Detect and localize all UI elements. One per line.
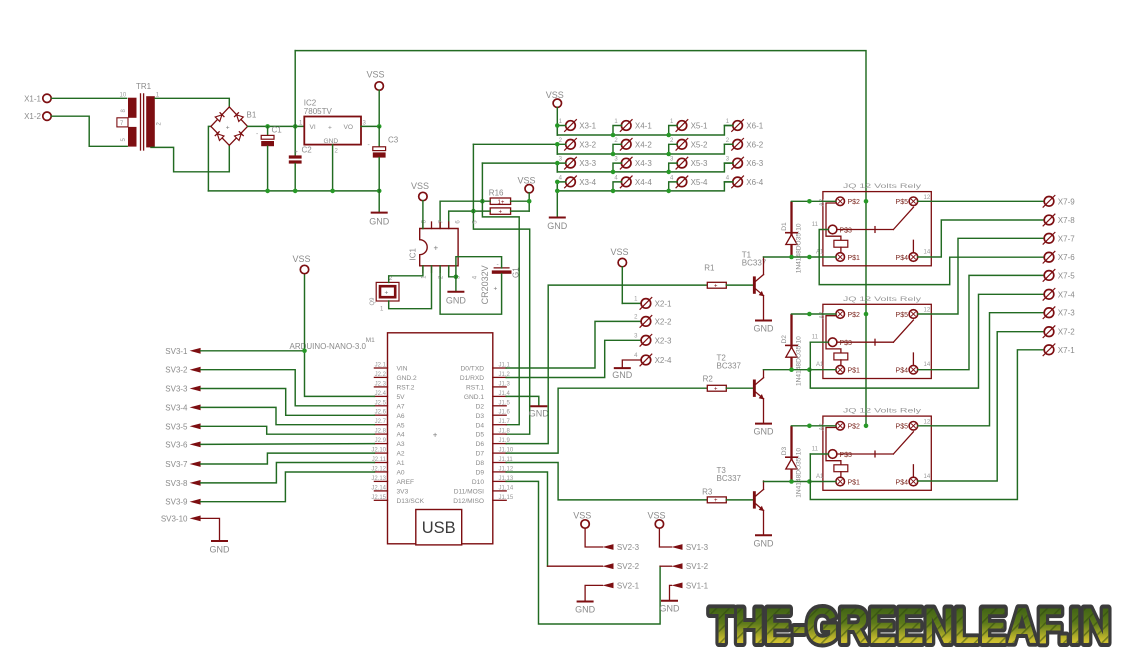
svg-text:GND: GND: [446, 296, 467, 306]
node diode bottom relay1: [789, 255, 794, 260]
svg-text:GND: GND: [210, 545, 231, 555]
terminal SV1-3: [672, 543, 709, 552]
ground GND grid: [547, 218, 568, 232]
transistor T3 BC337: [717, 466, 764, 535]
svg-text:P$3: P$3: [840, 227, 853, 234]
svg-text:VO: VO: [344, 124, 354, 131]
svg-text:SV2-1: SV2-1: [617, 581, 640, 590]
svg-text:D1: D1: [781, 222, 788, 231]
terminal SV3-7: [165, 460, 200, 469]
wire J1.11 D8 to R3: [506, 463, 707, 500]
wire stub X5-4: [669, 182, 678, 191]
svg-text:J1.7: J1.7: [499, 419, 511, 425]
connector X4-1: [614, 119, 652, 132]
ground GND X2-4: [612, 368, 633, 380]
node IC1 gnd: [454, 275, 459, 280]
node rail C1: [265, 189, 270, 194]
svg-text:GND.2: GND.2: [397, 375, 417, 382]
wire relay2 NC 12 to X7-7: [918, 238, 1044, 314]
wire J1.2 D1/RXD to X2-3: [506, 340, 641, 377]
svg-text:P$4: P$4: [896, 479, 909, 486]
svg-text:P$2: P$2: [848, 424, 861, 431]
svg-text:-: -: [497, 261, 499, 268]
svg-text:J1.8: J1.8: [499, 429, 511, 435]
svg-text:A1: A1: [816, 362, 824, 368]
wire relay1 NC 12 to X7-9: [918, 200, 1044, 202]
node A1 pin relay3: [807, 479, 812, 484]
ground GND T1: [754, 321, 775, 334]
node rail IC2: [330, 189, 335, 194]
wire top rail left drop: [294, 51, 296, 127]
svg-text:A5: A5: [397, 422, 405, 429]
svg-text:7805TV: 7805TV: [304, 107, 333, 116]
svg-text:D5: D5: [476, 432, 485, 439]
power VSS IC1: [411, 181, 429, 229]
svg-text:P$3: P$3: [840, 340, 853, 347]
terminal SV3-4: [165, 403, 200, 412]
svg-text:RST.1: RST.1: [466, 385, 484, 392]
wire stub X6-3: [724, 162, 733, 164]
svg-text:-: -: [256, 131, 258, 138]
wire stub X4-1: [613, 126, 622, 136]
svg-text:X7-3: X7-3: [1058, 309, 1075, 318]
transformer TR1: [117, 82, 163, 150]
ground GND SV1-1: [660, 601, 681, 614]
node junction C1: [265, 124, 270, 129]
svg-text:+: +: [714, 386, 718, 392]
svg-text:11: 11: [812, 447, 819, 453]
svg-text:+: +: [434, 244, 439, 253]
svg-text:SV3-9: SV3-9: [165, 498, 188, 507]
wire bus row3: [557, 163, 733, 172]
capacitor C1: [256, 125, 282, 191]
resistor network R16: [489, 189, 511, 216]
svg-text:+: +: [226, 124, 230, 131]
node bus1 X4: [611, 133, 616, 138]
wire stub X6-4: [724, 181, 733, 183]
relay K1 JQ-12V: [812, 184, 932, 266]
terminal SV3-1: [165, 347, 200, 356]
node grid left: [555, 123, 560, 128]
node VSS/VO/C3: [377, 124, 382, 129]
wire SV3-1: [201, 350, 305, 352]
svg-text:X7-2: X7-2: [1058, 328, 1075, 337]
svg-text:1N4148DO35-10: 1N4148DO35-10: [795, 336, 802, 386]
wire SV3-10 to GND: [201, 518, 220, 541]
svg-text:X7-4: X7-4: [1058, 290, 1075, 299]
svg-text:SV3-7: SV3-7: [165, 460, 188, 469]
svg-text:+: +: [714, 498, 718, 504]
connector X2-3: [634, 333, 672, 346]
svg-text:M1: M1: [366, 337, 375, 344]
wire X2-4 to GND: [622, 360, 641, 368]
node rail C3: [377, 189, 382, 194]
wire IC2 VO to VSS node: [361, 125, 379, 127]
wire VSS to X2-1: [622, 302, 641, 304]
svg-text:VSS: VSS: [648, 511, 666, 521]
ground GND SV2-1: [575, 602, 596, 615]
wire stub X3-2: [557, 144, 566, 154]
svg-text:D3: D3: [781, 447, 788, 456]
svg-text:X7-7: X7-7: [1058, 234, 1075, 243]
node A2 pin relay2: [807, 312, 812, 317]
svg-text:J2.4: J2.4: [375, 391, 387, 397]
node bus4 X4: [611, 189, 616, 194]
svg-text:D3: D3: [476, 413, 485, 420]
svg-text:GND: GND: [324, 138, 339, 145]
svg-text:AREF: AREF: [397, 479, 415, 486]
ground GND psu: [369, 191, 390, 227]
svg-text:X4-1: X4-1: [635, 122, 652, 131]
wire SV3-3 to A6: [201, 389, 375, 416]
svg-text:X2-1: X2-1: [655, 299, 672, 308]
terminal SV2-1: [603, 581, 640, 590]
terminal SV3-8: [165, 479, 200, 488]
svg-text:Q9: Q9: [370, 297, 376, 306]
connector X2-2: [634, 315, 672, 328]
diode D1 1N4148DO35-10: [781, 201, 802, 273]
svg-text:R16: R16: [489, 189, 504, 198]
svg-text:J2.9: J2.9: [375, 438, 387, 444]
node R16 VSS: [527, 199, 532, 204]
wire J1.1 D0/TXD to X2-2: [506, 321, 641, 368]
wire battery plus to IC1 pin3: [440, 266, 502, 314]
svg-text:D7: D7: [476, 451, 485, 458]
svg-text:J1.5: J1.5: [499, 400, 511, 406]
terminal SV3-6: [165, 440, 200, 449]
svg-text:SV1-3: SV1-3: [686, 543, 709, 552]
svg-text:12: 12: [924, 308, 931, 314]
svg-text:X5-1: X5-1: [691, 122, 708, 131]
connector X5-1: [670, 119, 708, 132]
svg-text:X3-1: X3-1: [579, 122, 596, 131]
wire SV2-1 to GND: [585, 585, 602, 601]
connector X7-3: [1043, 306, 1076, 319]
wire J1.13 D10 to SV1-2: [506, 481, 660, 624]
svg-text:SV3-8: SV3-8: [165, 479, 188, 488]
svg-text:X6-2: X6-2: [746, 140, 763, 149]
wire to SV1-2: [660, 565, 671, 567]
svg-text:SV3-4: SV3-4: [165, 403, 188, 412]
connector X7-4: [1043, 288, 1076, 301]
svg-text:D9: D9: [476, 470, 485, 477]
node rail C2: [293, 189, 298, 194]
svg-text:A2: A2: [397, 451, 405, 458]
connector X3-4: [559, 175, 597, 188]
terminal SV3-5: [165, 422, 200, 431]
wire J1.12 D9 to SV2-2: [506, 472, 547, 566]
svg-text:+: +: [714, 283, 718, 289]
svg-text:A2: A2: [819, 198, 825, 206]
capacitor C3: [368, 126, 399, 190]
svg-text:BC337: BC337: [717, 474, 742, 483]
wire stub X4-3: [613, 163, 622, 172]
wire to SV2-2: [548, 565, 603, 567]
node diode bottom relay3: [789, 479, 794, 484]
svg-text:A0: A0: [397, 470, 405, 477]
power VSS grid top: [546, 90, 564, 135]
svg-text:THE-GREENLEAF.IN: THE-GREENLEAF.IN: [709, 598, 1111, 651]
wire VSS to SV2-3: [585, 528, 602, 547]
svg-text:J2.14: J2.14: [371, 485, 386, 491]
wire SV3-7 to A2: [201, 453, 375, 464]
connector X4-4: [614, 175, 652, 188]
wire battery minus loop: [456, 257, 502, 277]
ground GND J1.4: [529, 406, 550, 418]
wire bus row2: [557, 144, 733, 154]
wire collector row relay1: [764, 256, 836, 258]
power VSS SV1: [648, 511, 666, 529]
svg-text:1N4148DO35-10: 1N4148DO35-10: [795, 223, 802, 273]
svg-text:SV3-10: SV3-10: [161, 514, 188, 523]
svg-text:VSS: VSS: [411, 181, 429, 191]
node A1 pin relay2: [807, 367, 812, 372]
wire crystal top to IC1 pin1: [389, 266, 423, 283]
svg-text:VSS: VSS: [546, 90, 564, 100]
power VSS top left: [367, 70, 385, 127]
node SV3-1 VSS: [302, 349, 307, 354]
svg-text:X4-3: X4-3: [635, 159, 652, 168]
wire X1-1 to TR1 primary top: [52, 97, 127, 99]
wire IC1 pin4 to GND node: [449, 266, 456, 277]
svg-text:A7: A7: [397, 403, 405, 410]
wire coil A2 row relay3: [792, 425, 836, 427]
node A2 pin relay3: [807, 424, 812, 429]
wire X1-2 to TR1 primary bottom: [52, 116, 128, 146]
svg-text:IC2: IC2: [304, 98, 317, 107]
node bus1 X5: [666, 133, 671, 138]
capacitor C2: [289, 126, 312, 190]
svg-text:+: +: [494, 286, 498, 293]
svg-text:J2.15: J2.15: [371, 495, 386, 501]
connector X7-5: [1043, 269, 1076, 282]
svg-text:A2: A2: [819, 311, 825, 319]
terminal SV3-3: [165, 385, 200, 394]
terminal SV3-2: [165, 366, 200, 375]
wire stub X3-1: [557, 126, 566, 136]
svg-text:14: 14: [924, 250, 931, 256]
connector X2-1: [634, 297, 672, 310]
svg-text:R3: R3: [702, 488, 713, 497]
svg-text:P$1: P$1: [848, 255, 861, 262]
wire relay2 NO 14 to X7-5: [918, 275, 1044, 369]
node A2 bus relay2: [864, 312, 869, 317]
svg-text:VSS: VSS: [293, 254, 311, 264]
wire collector row relay3: [764, 481, 836, 483]
svg-text:14: 14: [924, 362, 931, 368]
svg-text:+: +: [433, 430, 438, 439]
svg-text:A6: A6: [397, 413, 405, 420]
wire J1.4 GND.1: [506, 396, 539, 406]
wire stub X5-3: [669, 163, 678, 172]
svg-text:GND.1: GND.1: [464, 394, 484, 401]
power VSS SV3: [293, 254, 311, 274]
svg-text:A1: A1: [816, 474, 824, 480]
bridge rectifier B1: [211, 107, 257, 145]
svg-text:VSS: VSS: [518, 176, 536, 186]
svg-text:D2: D2: [476, 403, 485, 410]
svg-text:TR1: TR1: [136, 82, 152, 91]
svg-text:J1.15: J1.15: [499, 495, 514, 501]
connector X3-2: [559, 138, 597, 151]
node A2 bus relay1: [864, 199, 869, 204]
wire bridge right to IC2 VI: [248, 125, 305, 127]
wire SCL from X3-3 row: [482, 163, 557, 172]
ground GND SV3-10: [210, 541, 231, 555]
node SDA tap: [471, 209, 476, 214]
svg-text:IC1: IC1: [409, 248, 418, 261]
svg-text:SV3-3: SV3-3: [165, 385, 188, 394]
svg-text:J1.3: J1.3: [499, 381, 511, 387]
wire relay3 COM 11 to X7-1: [810, 350, 1044, 500]
svg-text:X2-3: X2-3: [655, 336, 672, 345]
wire stub X6-2: [724, 143, 733, 145]
svg-text:JQ 12 Volts Rely: JQ 12 Volts Rely: [843, 409, 921, 415]
resistor R1: [704, 264, 753, 290]
wire bus row1: [557, 126, 733, 136]
wire stub X5-2: [669, 144, 678, 154]
connector X7-1: [1043, 344, 1076, 357]
svg-text:P$1: P$1: [848, 368, 861, 375]
voltage regulator IC2 7805TV: [299, 98, 367, 154]
node SCL tap: [480, 199, 485, 204]
node grid left: [555, 180, 560, 185]
connector X3-3: [559, 157, 597, 170]
ground GND T3: [754, 535, 775, 548]
svg-text:D8: D8: [476, 460, 485, 467]
svg-text:G1: G1: [512, 267, 521, 278]
svg-text:12: 12: [924, 195, 931, 201]
svg-text:A1: A1: [397, 460, 405, 467]
svg-text:C1: C1: [272, 125, 283, 134]
terminal SV1-1: [672, 581, 709, 590]
wire SDA riser to J1.8: [473, 144, 529, 434]
watermark THE-GREENLEAF.IN: [709, 598, 1111, 651]
svg-text:P$5: P$5: [896, 312, 909, 319]
connector X4-3: [614, 157, 652, 170]
svg-text:5V: 5V: [397, 394, 406, 401]
wire grid row4 to GND: [556, 182, 558, 218]
svg-text:X5-4: X5-4: [691, 178, 708, 187]
wire stub X4-4: [613, 182, 622, 191]
svg-text:R2: R2: [703, 374, 714, 383]
module M1 ARDUINO-NANO-3.0: [290, 333, 514, 545]
wire SDA from X3-2 row: [473, 144, 557, 154]
power VSS SV2: [573, 511, 591, 529]
svg-text:X3-3: X3-3: [579, 159, 596, 168]
terminal SV3-9: [165, 498, 200, 507]
svg-text:J2.1: J2.1: [375, 363, 387, 369]
svg-text:X6-4: X6-4: [746, 178, 763, 187]
wire stub X6-1: [724, 125, 733, 127]
GND rail bottom: [208, 190, 379, 192]
svg-text:GND: GND: [660, 604, 681, 614]
wire VSS to SV3-1 and 5V: [305, 274, 375, 397]
wire SV3-6 to A3: [201, 443, 375, 446]
wire J1.9 D6 to R1: [506, 285, 707, 444]
svg-text:1N4148DO35-10: 1N4148DO35-10: [795, 448, 802, 498]
transistor T2 BC337: [717, 354, 764, 424]
svg-text:1+: 1+: [498, 200, 505, 206]
svg-text:B1: B1: [247, 111, 257, 120]
connector X7-8: [1043, 214, 1076, 227]
svg-text:X7-5: X7-5: [1058, 271, 1075, 280]
svg-text:J2.2: J2.2: [375, 372, 387, 378]
wire VSS to SV1-3: [659, 528, 671, 547]
svg-text:SV1-1: SV1-1: [686, 581, 709, 590]
power VSS R16: [518, 176, 536, 212]
wire stub X5-1: [669, 126, 678, 136]
svg-text:D6: D6: [476, 441, 485, 448]
svg-text:D11/MOSI: D11/MOSI: [454, 489, 484, 496]
diode D2 1N4148DO35-10: [781, 314, 802, 386]
node bus3 X4: [611, 170, 616, 175]
wire relay3 NC 12 to X7-3: [918, 313, 1044, 426]
svg-text:P$5: P$5: [896, 199, 909, 206]
svg-text:P$1: P$1: [848, 479, 861, 486]
wire relay1 NO 14 to X7-8: [918, 220, 1044, 257]
svg-text:11: 11: [812, 222, 819, 228]
connector X7-7: [1043, 232, 1076, 245]
wire IC2 GND pin to rail: [332, 145, 334, 191]
svg-text:SV2-2: SV2-2: [617, 562, 640, 571]
svg-text:D2: D2: [781, 335, 788, 344]
svg-text:D1/RXD: D1/RXD: [460, 375, 484, 382]
terminal SV3-10: [161, 514, 201, 523]
wire SV1-1 to GND: [670, 585, 672, 600]
svg-text:J2.3: J2.3: [375, 381, 387, 387]
wire TR1 secondary top to bridge: [155, 98, 229, 107]
resistor R3: [702, 488, 753, 504]
connector X6-3: [726, 157, 764, 170]
node diode bottom relay2: [789, 367, 794, 372]
svg-text:X3-4: X3-4: [579, 178, 596, 187]
connector X7-2: [1043, 325, 1076, 338]
wire stub X3-4: [557, 182, 566, 191]
svg-text:12: 12: [924, 419, 931, 425]
connector X4-2: [614, 138, 652, 151]
svg-text:X4-4: X4-4: [635, 178, 652, 187]
svg-text:VSS: VSS: [611, 247, 629, 257]
node bus3 X5: [666, 170, 671, 175]
svg-text:JQ 12 Volts Rely: JQ 12 Volts Rely: [843, 184, 921, 190]
svg-text:+: +: [328, 125, 332, 132]
wire relay2 11 stub: [810, 341, 828, 343]
connector X2-4: [634, 353, 672, 366]
svg-text:VI: VI: [310, 124, 316, 131]
wire coil A2 row relay1: [792, 200, 836, 202]
wire TR1 secondary bottom to bridge left: [151, 145, 229, 172]
svg-text:BC337: BC337: [717, 362, 742, 371]
svg-text:P$4: P$4: [896, 368, 909, 375]
connector X6-4: [726, 175, 764, 188]
connector X1-2: [24, 112, 51, 121]
svg-text:+: +: [294, 149, 298, 156]
svg-text:P$5: P$5: [896, 424, 909, 431]
svg-text:SV1-2: SV1-2: [686, 562, 709, 571]
svg-text:D10: D10: [472, 479, 484, 486]
svg-text:-: -: [368, 142, 370, 149]
connector X5-4: [670, 175, 708, 188]
svg-text:X5-2: X5-2: [691, 140, 708, 149]
node bus4 X5: [666, 189, 671, 194]
svg-text:10: 10: [120, 93, 127, 99]
svg-text:VIN: VIN: [397, 366, 408, 373]
svg-text:P$2: P$2: [848, 312, 861, 319]
node bus2 X4: [611, 152, 616, 157]
svg-text:X7-8: X7-8: [1058, 216, 1075, 225]
connector X5-2: [670, 138, 708, 151]
